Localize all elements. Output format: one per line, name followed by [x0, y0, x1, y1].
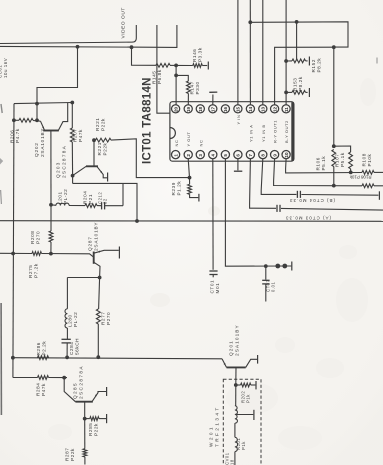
- svg-text:P1.2k: P1.2k: [177, 181, 182, 196]
- svg-text:Q203: Q203: [56, 161, 61, 178]
- svg-text:56kCH: 56kCH: [75, 338, 80, 355]
- svg-text:P270: P270: [106, 312, 111, 325]
- svg-text:Q287: Q287: [88, 236, 93, 251]
- svg-text:P6.8k: P6.8k: [157, 69, 162, 84]
- svg-text:P5.1k: P5.1k: [340, 152, 345, 167]
- svg-text:PL-22: PL-22: [63, 189, 68, 204]
- svg-text:C284: C284: [69, 342, 74, 355]
- svg-text:R221: R221: [95, 118, 100, 131]
- svg-text:P1k: P1k: [241, 441, 246, 450]
- svg-text:R277: R277: [101, 312, 106, 325]
- svg-text:3: 3: [198, 154, 203, 157]
- svg-text:W201: W201: [209, 425, 214, 447]
- svg-text:P47k: P47k: [41, 383, 46, 396]
- svg-text:7: 7: [248, 154, 253, 157]
- svg-text:P22k: P22k: [103, 143, 108, 156]
- svg-text:P7.2k: P7.2k: [34, 263, 39, 278]
- svg-text:82: 82: [103, 198, 108, 204]
- svg-text:4: 4: [211, 154, 216, 157]
- svg-text:R239: R239: [171, 182, 176, 195]
- svg-text:Q202: Q202: [34, 142, 39, 157]
- svg-text:Q285: Q285: [73, 382, 78, 399]
- svg-text:P270: P270: [36, 231, 41, 244]
- svg-text:10: 10: [284, 152, 289, 158]
- svg-text:P8.2k: P8.2k: [317, 58, 322, 73]
- svg-text:R287: R287: [65, 448, 70, 461]
- svg-text:Y OUT: Y OUT: [186, 132, 191, 147]
- svg-text:13: 13: [261, 106, 266, 112]
- svg-text:VIDEO OUT: VIDEO OUT: [121, 7, 127, 38]
- svg-text:0.01: 0.01: [271, 282, 276, 292]
- svg-text:18: 18: [230, 459, 235, 465]
- svg-text:2SA101BY: 2SA101BY: [94, 222, 99, 251]
- svg-text:R-Y OUT1: R-Y OUT1: [273, 120, 278, 143]
- svg-text:Y1 IN B: Y1 IN B: [261, 124, 266, 142]
- svg-text:1: 1: [173, 154, 178, 157]
- svg-text:R221: R221: [97, 142, 102, 155]
- svg-text:17: 17: [211, 106, 216, 112]
- svg-text:P1k: P1k: [246, 394, 251, 403]
- svg-text:8: 8: [261, 154, 266, 157]
- svg-text:P5.1k: P5.1k: [321, 156, 326, 171]
- svg-text:L201: L201: [58, 191, 63, 204]
- svg-text:2SA101BY: 2SA101BY: [235, 324, 240, 356]
- svg-text:R207: R207: [73, 129, 78, 142]
- svg-text:R284: R284: [36, 383, 41, 396]
- svg-text:10u 16V: 10u 16V: [3, 58, 8, 78]
- svg-text:12: 12: [272, 106, 277, 112]
- svg-text:5: 5: [223, 154, 228, 157]
- svg-text:R275: R275: [28, 265, 33, 278]
- svg-text:R108: R108: [362, 153, 367, 166]
- svg-text:R146: R146: [192, 49, 197, 62]
- svg-text:11: 11: [284, 107, 289, 112]
- svg-text:P2.2k: P2.2k: [42, 341, 47, 356]
- svg-text:R147: R147: [190, 81, 195, 94]
- svg-text:(B) CT04 M0.33: (B) CT04 M0.33: [289, 198, 335, 203]
- svg-text:P47k: P47k: [78, 129, 83, 142]
- svg-text:P22k: P22k: [101, 118, 106, 131]
- svg-text:15: 15: [236, 106, 241, 112]
- svg-text:R145: R145: [152, 71, 157, 84]
- svg-text:2: 2: [186, 154, 191, 157]
- svg-text:P3.3k: P3.3k: [198, 47, 203, 62]
- svg-text:P330: P330: [195, 81, 200, 94]
- svg-text:L280: L280: [68, 314, 73, 327]
- svg-text:TRF2134T: TRF2134T: [215, 405, 220, 447]
- svg-text:(A) CT03 M0.33: (A) CT03 M0.33: [285, 216, 331, 221]
- svg-text:R106: R106: [316, 157, 321, 170]
- svg-text:R152: R152: [311, 59, 316, 72]
- svg-text:P22k: P22k: [94, 423, 99, 436]
- svg-text:19: 19: [186, 106, 191, 112]
- svg-text:16: 16: [223, 106, 228, 112]
- svg-text:2SC2878A: 2SC2878A: [62, 145, 67, 178]
- svg-text:20: 20: [173, 106, 178, 112]
- svg-text:P22k: P22k: [70, 448, 75, 461]
- svg-text:Y IN: Y IN: [236, 115, 241, 125]
- svg-text:NC: NC: [174, 140, 179, 147]
- svg-text:Y1 IN A: Y1 IN A: [248, 125, 253, 142]
- svg-text:Q201: Q201: [229, 340, 234, 356]
- svg-text:P4.7k: P4.7k: [15, 128, 20, 143]
- svg-text:18: 18: [198, 106, 203, 112]
- svg-text:R208: R208: [30, 231, 35, 244]
- svg-text:P8.2k: P8.2k: [298, 76, 303, 91]
- svg-text:6: 6: [236, 154, 241, 157]
- svg-text:PL-22: PL-22: [73, 312, 78, 327]
- svg-text:R285: R285: [88, 423, 93, 436]
- svg-text:CT01: CT01: [210, 280, 215, 294]
- svg-text:9: 9: [272, 154, 277, 157]
- svg-text:R153: R153: [293, 78, 298, 91]
- svg-text:2SA101BY: 2SA101BY: [40, 128, 45, 157]
- svg-text:2SC2878A: 2SC2878A: [79, 365, 84, 399]
- svg-text:P21: P21: [88, 194, 93, 204]
- svg-text:R206: R206: [10, 130, 15, 143]
- svg-text:R286: R286: [36, 342, 41, 355]
- svg-text:14: 14: [248, 106, 253, 112]
- svg-text:R204: R204: [83, 191, 88, 204]
- svg-text:NC: NC: [198, 140, 203, 147]
- svg-text:P10k: P10k: [367, 154, 372, 167]
- svg-text:ICT01 TA8814N: ICT01 TA8814N: [142, 77, 154, 164]
- svg-text:M01: M01: [215, 283, 220, 294]
- svg-text:B-Y OUT2: B-Y OUT2: [284, 120, 289, 143]
- svg-text:R107: R107: [335, 154, 340, 167]
